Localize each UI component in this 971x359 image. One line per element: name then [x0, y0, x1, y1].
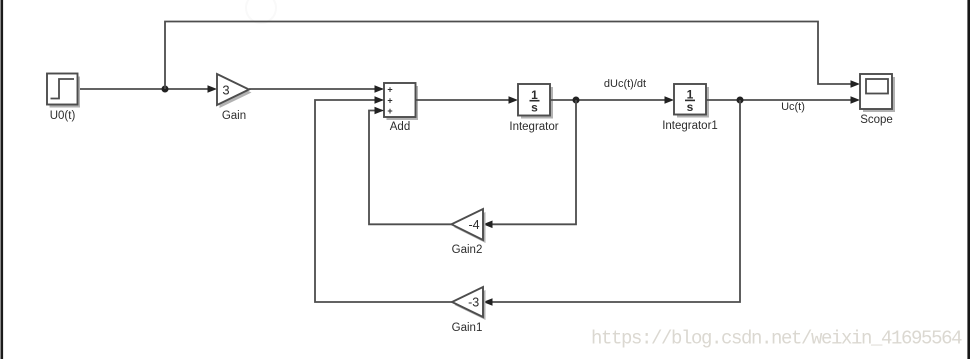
- gain Gain (value 3): [217, 74, 252, 122]
- node: branch junction after step: [162, 86, 169, 93]
- svg-text:+: +: [387, 85, 392, 95]
- node: branch junction after Integrator: [573, 97, 580, 104]
- integrator block Integrator1 (1/s): [662, 84, 718, 132]
- left screen edge: [1, 0, 4, 359]
- wire: Gain1 output to Add input 2: [315, 96, 452, 302]
- wire: Add to Integrator: [416, 96, 519, 104]
- svg-text:-3: -3: [468, 296, 479, 310]
- svg-text:-4: -4: [468, 218, 479, 232]
- svg-text:Gain1: Gain1: [452, 322, 483, 334]
- svg-text:3: 3: [222, 82, 229, 97]
- svg-text:Integrator: Integrator: [509, 121, 558, 133]
- step source U0(t): [47, 74, 80, 123]
- svg-text:Gain: Gain: [222, 110, 246, 122]
- svg-text:+: +: [387, 96, 392, 106]
- gain Gain1 (value -3): [452, 287, 486, 334]
- svg-text:Gain2: Gain2: [452, 244, 483, 256]
- wire: step source to Gain: [78, 85, 217, 93]
- svg-text:s: s: [687, 100, 694, 114]
- svg-text:Uc(t): Uc(t): [781, 101, 805, 113]
- wire: Gain2 output to Add input 3: [369, 107, 452, 225]
- integrator block Integrator (1/s): [509, 84, 558, 133]
- scope block Scope: [860, 74, 895, 126]
- svg-text:Scope: Scope: [860, 114, 893, 126]
- wire: feedback from node dUc/dt down to Gain2 input: [483, 100, 576, 228]
- faint player ring: [246, 0, 276, 23]
- wire: Integrator1 to Scope input 2: [706, 96, 860, 104]
- svg-text:U0(t): U0(t): [50, 110, 76, 122]
- svg-text:s: s: [531, 101, 538, 115]
- svg-text:https://blog.csdn.net/weixin_4: https://blog.csdn.net/weixin_41695564: [591, 328, 962, 350]
- wire: feedback from node Uc(t) down to Gain1 input: [483, 100, 740, 306]
- svg-text:+: +: [387, 106, 392, 116]
- gain Gain2 (value -4): [452, 209, 486, 256]
- right screen edge: [967, 0, 970, 359]
- svg-text:Integrator1: Integrator1: [662, 120, 718, 132]
- sum block Add: [384, 83, 418, 133]
- node: branch junction after Integrator1: [737, 97, 744, 104]
- wire: bypass from junction over top to Scope input 1: [165, 22, 860, 90]
- wire: Integrator to Integrator1: [550, 96, 674, 104]
- svg-text:dUc(t)/dt: dUc(t)/dt: [604, 78, 646, 90]
- svg-text:Add: Add: [390, 121, 410, 133]
- wire: Gain to Add input 1: [249, 85, 384, 93]
